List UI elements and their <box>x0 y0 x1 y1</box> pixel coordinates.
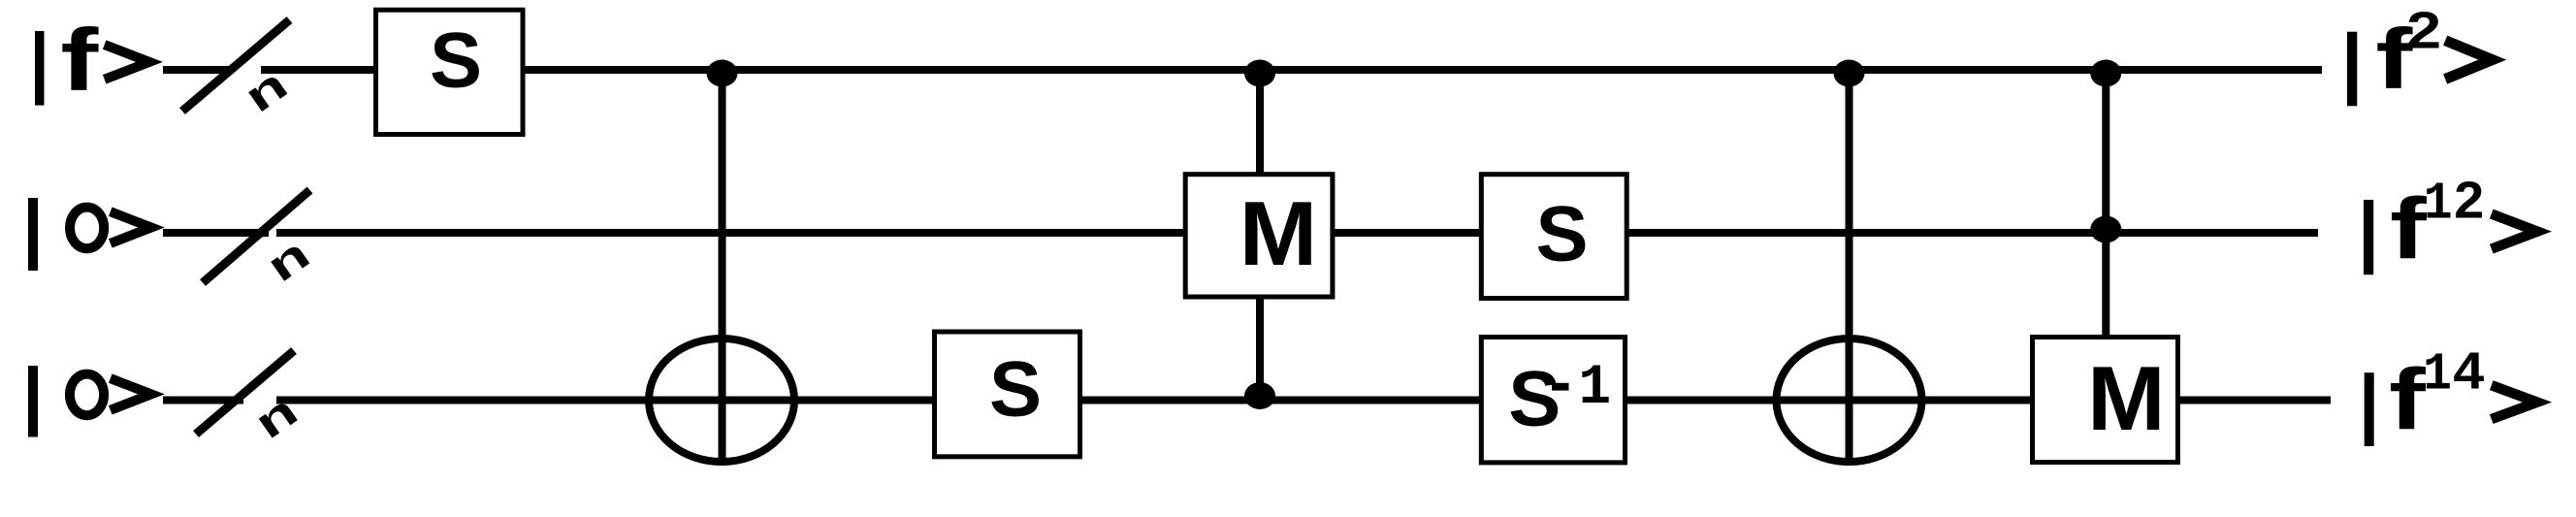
wire register 2 segment d <box>1627 229 2318 237</box>
control dot on wire 2 for bottom M gate <box>2090 216 2121 243</box>
wire register 3 segment a <box>163 397 243 404</box>
output ket label |f^12> (register 2) <box>2364 171 2537 276</box>
svg-text:n: n <box>245 385 306 448</box>
svg-text:f: f <box>2390 180 2428 277</box>
gate box S (register 2) <box>1481 175 1626 299</box>
svg-text:f: f <box>60 11 99 110</box>
svg-text:S: S <box>1508 356 1561 443</box>
CNOT 1 target circle on wire 3 <box>649 339 794 462</box>
svg-text:1: 1 <box>1579 357 1611 420</box>
control dot on wire 1 for M gate <box>1244 60 1275 87</box>
controlled-M vertical line lower segment <box>1256 298 1264 397</box>
control dot on wire 1 for bottom M gate <box>2090 60 2121 87</box>
gate box S (register 3, first) <box>935 332 1080 457</box>
CNOT 2 target circle on wire 3 <box>1777 339 1922 462</box>
gate box S (register 1) <box>376 10 524 134</box>
svg-text:1: 1 <box>2423 343 2452 404</box>
wire register 3 segment c <box>1080 397 1480 404</box>
doubly-controlled M vertical line <box>2102 70 2109 337</box>
svg-text:S: S <box>430 17 482 105</box>
controlled-M vertical line upper segment <box>1256 70 1264 174</box>
control vertical line CNOT 1 <box>719 70 726 464</box>
output ket label |f^2> (register 1) <box>2347 1 2493 107</box>
wire register 1 segment a <box>163 66 230 74</box>
wire register 2 segment a <box>163 229 269 237</box>
svg-text:f: f <box>2389 351 2427 448</box>
bus slash register 2 <box>203 190 310 283</box>
svg-text:M: M <box>1240 183 1318 284</box>
wire register 3 segment b <box>276 397 934 404</box>
input ket label |0> (qubit register 2) <box>28 198 151 271</box>
svg-text:1: 1 <box>2424 173 2453 234</box>
svg-text:M: M <box>2087 348 2166 449</box>
svg-text:2: 2 <box>2406 1 2441 60</box>
bus slash register 3 <box>196 351 294 435</box>
input ket label |f> (qubit register 1) <box>35 11 149 110</box>
svg-text:S: S <box>989 346 1042 434</box>
wire register 1 segment c <box>524 66 2322 74</box>
svg-text:n: n <box>258 229 319 292</box>
svg-text:2: 2 <box>2454 171 2484 229</box>
gate box S inverse (register 3) <box>1481 338 1625 463</box>
wire register 3 segment e <box>2178 397 2331 404</box>
wire register 2 segment c <box>1334 229 1480 237</box>
bus slash register 1 <box>182 20 290 112</box>
control dot CNOT 1 on wire 1 <box>707 60 738 87</box>
svg-text:4: 4 <box>2453 341 2484 400</box>
svg-text:S: S <box>1535 191 1588 278</box>
gate label minus of superscript -1 <box>1552 383 1569 391</box>
control dot on wire 3 for M gate <box>1244 382 1275 409</box>
gate box M (register 3) <box>2033 338 2178 463</box>
gate box M (register 2) <box>1185 175 1333 297</box>
wire register 1 segment b <box>261 66 375 74</box>
input ket label |0> (qubit register 3) <box>28 366 151 437</box>
control dot CNOT 2 on wire 1 <box>1834 60 1865 87</box>
output ket label |f^14> (register 3) <box>2365 341 2537 447</box>
wire register 3 segment d <box>1626 397 2032 404</box>
wire register 2 segment b <box>276 229 1185 237</box>
control vertical line CNOT 2 <box>1846 70 1853 464</box>
